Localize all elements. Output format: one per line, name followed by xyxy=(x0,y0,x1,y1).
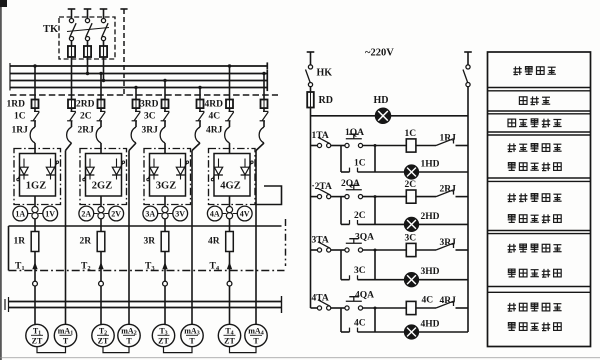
wire CT to resistor 1R xyxy=(34,219,36,232)
thyristor right in 4GZ xyxy=(241,159,253,180)
svg-text:4A: 4A xyxy=(210,210,220,219)
wire group4 left leg into rectifier box xyxy=(229,143,231,154)
svg-text:1RJ: 1RJ xyxy=(12,126,29,136)
svg-text:4R: 4R xyxy=(208,237,220,247)
svg-text:4QA: 4QA xyxy=(355,291,374,301)
svg-text:3GZ: 3GZ xyxy=(156,181,176,192)
terminal circle group2 xyxy=(99,281,104,286)
voltmeter 2V xyxy=(104,206,123,221)
wire branch to lamp 4HD xyxy=(375,308,468,332)
function description table frame xyxy=(488,52,591,347)
svg-text:RD: RD xyxy=(319,95,333,106)
wire terminal to thermocouple meter xyxy=(229,286,231,324)
TK pole 1 knife switch xyxy=(69,19,76,41)
svg-text:T: T xyxy=(253,337,259,346)
node group3 left leg tap on bus xyxy=(163,79,166,100)
table row 7 text: heater group 4 power control xyxy=(508,303,562,331)
wire TK pole1 down to group1 right leg xyxy=(71,57,73,100)
svg-text:2HD: 2HD xyxy=(421,212,440,222)
table row 6 text: heater group 3 power control xyxy=(508,244,562,277)
thermostat contact 3TA xyxy=(311,242,345,252)
voltmeter 1V xyxy=(38,206,57,221)
ammeter 1A xyxy=(13,206,32,221)
pushbutton 1QA xyxy=(345,134,363,147)
svg-text:3C: 3C xyxy=(354,266,366,276)
wire terminal to thermocouple meter xyxy=(34,286,36,324)
instrument bus pair (double horizontal lines) xyxy=(5,296,282,313)
fuse RD on left rail xyxy=(307,87,314,108)
svg-text:ZT: ZT xyxy=(224,337,235,346)
wire branch to lamp 2HD xyxy=(375,197,468,225)
arrow terminal T3 xyxy=(162,262,167,269)
svg-text:1C: 1C xyxy=(354,159,366,169)
wire group4 right leg down past box xyxy=(256,143,264,226)
signal lamp 4HD xyxy=(405,325,419,339)
wire CT to resistor 3R xyxy=(164,219,166,232)
TK pole 1 fuse xyxy=(68,41,75,57)
table row 5 text: heater group 2 power control xyxy=(508,193,562,222)
svg-text:3QA: 3QA xyxy=(355,233,374,243)
TK pole 2 fuse xyxy=(84,41,91,57)
wire 4GZ output to CT xyxy=(229,196,231,206)
scan artifact top-left corner xyxy=(0,0,7,7)
table row divider 6 xyxy=(488,287,591,293)
milliammeter mA2 xyxy=(118,324,140,346)
holding contact 1C xyxy=(341,146,375,173)
svg-text:4C: 4C xyxy=(354,319,366,329)
resistor 4R xyxy=(226,232,234,252)
svg-text:2R: 2R xyxy=(80,237,92,247)
rectifier unit box 1GZ xyxy=(20,154,56,197)
node group4 right leg tap on bus xyxy=(262,72,265,100)
svg-text:3A: 3A xyxy=(145,210,155,219)
right rail wire xyxy=(467,87,469,332)
rectifier unit box 3GZ xyxy=(150,154,186,197)
wire jumper under meter pair group1 xyxy=(37,347,66,353)
current transformer group4 xyxy=(226,207,232,219)
TK pole 2 knife switch xyxy=(85,19,92,41)
thyristor left in 3GZ xyxy=(147,159,159,181)
svg-text:1C: 1C xyxy=(405,129,417,139)
svg-text:1A: 1A xyxy=(15,210,25,219)
TK pole 2 supply terminal xyxy=(84,9,92,18)
wire 2QA to coil 2C xyxy=(363,195,406,198)
node group1 left leg tap on bus xyxy=(33,64,36,99)
svg-text:1R: 1R xyxy=(14,237,26,247)
wire group2 left leg into rectifier box xyxy=(100,143,102,154)
svg-text:2RJ: 2RJ xyxy=(78,126,95,136)
wire resistor 1R to terminal xyxy=(34,252,36,282)
wire group1 left leg into rectifier box xyxy=(34,143,36,154)
voltmeter 4V xyxy=(233,206,252,221)
svg-text:3HD: 3HD xyxy=(421,267,440,277)
thyristor left in 4GZ xyxy=(211,159,223,181)
svg-text:1GZ: 1GZ xyxy=(26,181,46,192)
contactor coil 2C xyxy=(406,190,416,203)
current transformer group2 xyxy=(98,207,104,219)
node group3 right leg tap on bus xyxy=(198,86,201,100)
overload break contact 2RJ xyxy=(416,190,468,197)
wire group3 left leg into rectifier box xyxy=(164,143,166,154)
wire jumper under meter pair group4 xyxy=(230,347,257,353)
svg-text:2A: 2A xyxy=(81,210,91,219)
svg-text:3V: 3V xyxy=(175,210,185,219)
wire jumper under meter pair group2 xyxy=(103,347,129,353)
wire terminal to thermocouple meter xyxy=(164,286,166,324)
voltmeter 3V xyxy=(168,206,187,221)
wire 2GZ output to CT xyxy=(100,196,102,206)
wire 4QA to coil 4C xyxy=(363,307,406,310)
svg-text:4RJ: 4RJ xyxy=(440,296,457,306)
svg-text:1RJ: 1RJ xyxy=(440,134,457,144)
milliammeter mA3 xyxy=(181,324,203,346)
TK pole 1 supply terminal xyxy=(68,9,76,18)
table row divider 5 xyxy=(488,231,591,234)
svg-text:4RJ: 4RJ xyxy=(206,126,223,136)
wire loop at group4 right side xyxy=(256,186,282,205)
svg-text:4TA: 4TA xyxy=(312,294,329,304)
ammeter 3A xyxy=(143,206,162,221)
ammeter 4A xyxy=(207,206,226,221)
svg-text:2C: 2C xyxy=(354,211,366,221)
svg-text:2C: 2C xyxy=(80,112,92,122)
svg-text:1V: 1V xyxy=(45,210,55,219)
dashed control tap with terminal xyxy=(120,9,127,95)
svg-text:3C: 3C xyxy=(144,112,156,122)
pushbutton 2QA xyxy=(345,185,363,198)
TK switch-fuse unit dashed enclosure xyxy=(59,17,115,59)
signal lamp 3HD xyxy=(405,273,419,287)
left rail wire xyxy=(310,108,312,309)
holding contact 4C xyxy=(341,308,375,332)
svg-text:·2TA: ·2TA xyxy=(312,182,333,192)
left rail supply terminal xyxy=(307,52,315,65)
wire 1GZ output to CT xyxy=(34,196,36,206)
thyristor right in 1GZ xyxy=(46,159,59,180)
wire 3GZ output to CT xyxy=(164,196,166,206)
table row divider 3 xyxy=(488,132,591,135)
current transformer group3 xyxy=(162,207,168,219)
scan artifact faint bottom line xyxy=(0,357,600,358)
svg-text:1C: 1C xyxy=(14,112,26,122)
bus bars L1 L2 L3 N (four horizontal supply lines) xyxy=(10,62,267,91)
overload break contact 4RJ xyxy=(416,301,468,308)
wire branch to lamp 3HD xyxy=(375,250,468,280)
milliammeter mA4 xyxy=(245,324,267,346)
pilot lamp HD xyxy=(311,108,469,123)
thermocouple meter T4/ZT xyxy=(218,324,240,346)
dash-dot right boundary segment xyxy=(285,219,287,266)
thermocouple meter T3/ZT xyxy=(152,324,174,346)
node group4 left leg tap on bus xyxy=(228,64,231,99)
svg-text:ZT: ZT xyxy=(32,337,43,346)
dash-dot enclosure around 1GZ xyxy=(14,149,61,205)
thermocouple meter T2/ZT xyxy=(92,324,114,346)
contactor coil 4C xyxy=(406,301,416,314)
svg-text:3RJ: 3RJ xyxy=(440,238,457,248)
wire branch to lamp 1HD xyxy=(375,146,468,173)
svg-text:3R: 3R xyxy=(144,237,156,247)
resistor 1R xyxy=(31,232,39,252)
wire 1QA to coil 1C xyxy=(363,144,406,147)
fuse 4RD right leg with contact and heater element xyxy=(259,100,268,144)
wire right leg down to milliammeter xyxy=(191,226,193,324)
svg-text:4V: 4V xyxy=(240,210,250,219)
svg-text:3TA: 3TA xyxy=(312,236,329,246)
dash-dot line above fuse row xyxy=(10,94,278,96)
wire resistor 3R to terminal xyxy=(164,252,166,282)
svg-text:4HD: 4HD xyxy=(421,320,440,330)
fuse 1RD left leg with contactor contact 1C and heater element 1RJ xyxy=(30,100,39,144)
svg-text:~220V: ~220V xyxy=(365,48,394,59)
svg-text:2GZ: 2GZ xyxy=(92,181,112,192)
thyristor right in 3GZ xyxy=(176,159,188,180)
svg-text:ZT: ZT xyxy=(158,337,169,346)
svg-text:T: T xyxy=(189,337,195,346)
resistor 2R xyxy=(97,232,105,252)
switch HK left pole xyxy=(306,65,313,87)
svg-text:4RD: 4RD xyxy=(205,100,224,110)
svg-text:T: T xyxy=(126,337,132,346)
current transformer group1 xyxy=(32,207,38,219)
dash-dot measuring boundary line xyxy=(9,270,285,272)
TK pole 3 knife switch xyxy=(101,19,108,41)
wire right leg down to milliammeter xyxy=(65,226,67,324)
right rail supply terminal xyxy=(464,52,472,65)
fuse 2RD left leg with contactor contact 2C and heater element 2RJ xyxy=(96,100,105,144)
wire group1 right leg down past box xyxy=(66,143,72,226)
terminal circle group1 xyxy=(33,281,38,286)
terminal circle group4 xyxy=(227,281,232,286)
node group2 left leg tap on bus xyxy=(99,72,102,100)
wire right leg down to milliammeter xyxy=(128,226,130,324)
svg-text:1TA: 1TA xyxy=(312,131,329,141)
thyristor left in 1GZ xyxy=(17,159,29,181)
svg-text:4C: 4C xyxy=(422,296,434,306)
ammeter 2A xyxy=(79,206,98,221)
terminal circle group3 xyxy=(163,281,168,286)
contactor coil 3C xyxy=(406,243,416,256)
overload break contact 3RJ xyxy=(416,243,468,250)
svg-text:HK: HK xyxy=(317,68,333,79)
wire CT to resistor 2R xyxy=(100,219,102,232)
rectifier unit box 4GZ xyxy=(214,154,250,197)
table row divider 2 xyxy=(488,111,591,114)
wire group3 right leg down past box xyxy=(192,143,200,226)
arrow terminal T2 xyxy=(98,262,103,269)
thermocouple meter T1/ZT xyxy=(26,324,48,346)
contactor coil 1C xyxy=(406,139,416,152)
signal lamp 1HD xyxy=(405,165,419,179)
milliammeter mA1 xyxy=(54,324,76,346)
svg-text:T: T xyxy=(63,337,69,346)
fuse 1RD right leg with contact and heater element xyxy=(67,100,76,144)
table row 2 text: fuse xyxy=(519,96,550,104)
wire TK pole2 down to bus L2 xyxy=(86,57,89,75)
pushbutton 3QA xyxy=(345,239,363,252)
svg-text:2C: 2C xyxy=(405,180,417,190)
holding contact 3C xyxy=(341,250,375,280)
table row 4 text: heater group 1 power control xyxy=(508,143,562,170)
svg-text:3C: 3C xyxy=(405,234,417,244)
svg-text:1RD: 1RD xyxy=(7,100,26,110)
fuse 3RD left leg with contactor contact 3C and heater element 3RJ xyxy=(160,100,169,144)
svg-text:1QA: 1QA xyxy=(345,128,364,138)
thyristor right in 2GZ xyxy=(112,159,125,180)
wire horizontal collector line above resistors xyxy=(9,225,282,227)
wire terminal to thermocouple meter xyxy=(100,286,102,324)
wire 3QA to coil 3C xyxy=(363,249,406,252)
wire jumper under meter pair group3 xyxy=(164,347,193,353)
overload break contact 1RJ xyxy=(416,139,468,146)
TK tie bar linking switch blades xyxy=(67,28,109,32)
node group2 right leg tap on bus xyxy=(134,86,137,100)
wire resistor 4R to terminal xyxy=(229,252,231,282)
svg-text:3RD: 3RD xyxy=(140,100,159,110)
svg-text:ZT: ZT xyxy=(98,337,109,346)
table row 1 text: control power xyxy=(513,66,556,74)
svg-text:2V: 2V xyxy=(111,210,121,219)
dash-dot enclosure around 3GZ xyxy=(144,149,191,205)
svg-text:2QA: 2QA xyxy=(341,179,360,189)
scan border artifact left edge xyxy=(0,0,2,360)
rectifier unit box 2GZ xyxy=(86,154,122,197)
pushbutton 4QA xyxy=(345,297,363,310)
svg-text:3RJ: 3RJ xyxy=(142,126,159,136)
holding contact 2C xyxy=(341,197,375,225)
thermostat contact 2TA xyxy=(311,188,345,198)
svg-text:HD: HD xyxy=(374,95,389,106)
thyristor left in 2GZ xyxy=(83,159,95,181)
arrow terminal T4 xyxy=(227,262,232,269)
svg-text:1HD: 1HD xyxy=(421,160,440,170)
wire group2 right leg down past box xyxy=(129,143,136,226)
svg-text:4C: 4C xyxy=(209,112,221,122)
TK pole 3 fuse xyxy=(100,41,107,57)
wire TK pole3 down to bus L3 xyxy=(102,57,105,82)
svg-text:2RD: 2RD xyxy=(76,100,95,110)
fuse 4RD left leg with contactor contact 4C and heater element 4RJ xyxy=(225,100,234,144)
signal lamp 2HD xyxy=(405,217,419,231)
dash-dot enclosure around 2GZ xyxy=(80,149,127,205)
table row 3 text: power signal lamp xyxy=(508,119,562,127)
svg-text:2RJ: 2RJ xyxy=(440,185,457,195)
table row divider 1 xyxy=(488,88,591,91)
svg-text:4GZ: 4GZ xyxy=(220,181,240,192)
resistor 3R xyxy=(161,232,169,252)
wire left edge of resistor section xyxy=(8,226,10,271)
dash-dot enclosure around 4GZ xyxy=(209,149,256,205)
fuse 3RD right leg with contact and heater element xyxy=(195,100,204,144)
arrow terminal T1 xyxy=(32,262,37,269)
fuse 2RD right leg with contact and heater element xyxy=(131,100,140,144)
switch HK right pole xyxy=(463,65,470,87)
wire resistor 2R to terminal xyxy=(100,252,102,282)
thermostat contact 1TA xyxy=(311,137,345,147)
svg-text:TK: TK xyxy=(43,24,59,35)
TK pole 3 supply terminal xyxy=(100,9,108,18)
wire right leg down to milliammeter xyxy=(255,226,257,324)
wire CT to resistor 4R xyxy=(229,219,231,232)
thermostat contact 4TA xyxy=(311,300,345,310)
table row divider 4 xyxy=(488,178,591,181)
